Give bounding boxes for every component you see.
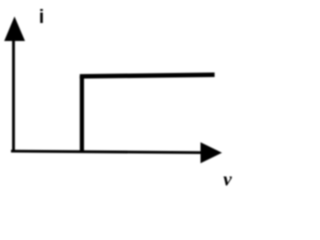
i-axis arrowhead (up)	[4, 17, 25, 42]
step horizontal wire (thick)	[80, 73, 215, 79]
i-axis wire (vertical axis line)	[12, 38, 15, 153]
svg-text:i: i	[39, 7, 44, 28]
svg-text:v: v	[223, 170, 232, 191]
step vertical wire (thick)	[80, 76, 84, 153]
v-axis wire (horizontal axis line)	[11, 150, 202, 154]
v-axis arrowhead (right)	[201, 142, 223, 163]
